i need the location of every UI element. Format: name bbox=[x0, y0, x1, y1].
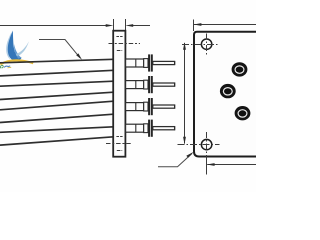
hidden hole edge dashes bottom bbox=[116, 136, 122, 138]
logo text bbox=[0, 65, 11, 68]
leader to plate corner bbox=[158, 154, 192, 167]
mounting hole top bbox=[182, 34, 219, 56]
arrowhead left at flange right face bbox=[125, 24, 133, 27]
extension line B bbox=[125, 19, 127, 31]
tube 2 bottom edge bbox=[0, 92, 114, 99]
front plate top dimension bbox=[194, 24, 256, 26]
logo flame bbox=[0, 31, 33, 65]
tube 1 bottom edge bbox=[0, 70, 114, 76]
terminal nut 3 on plate bbox=[235, 106, 251, 120]
tube 3 top edge bbox=[0, 101, 114, 110]
centerline top mounting hole bbox=[109, 43, 141, 45]
terminal nut 2 on plate bbox=[220, 84, 236, 98]
terminal nut 1 on plate bbox=[232, 62, 248, 76]
terminal 3 bbox=[126, 98, 175, 115]
terminal 2 bbox=[126, 76, 175, 93]
extension line plate top left bbox=[193, 20, 195, 32]
wire top dimension line left view bbox=[0, 25, 150, 27]
vertical dimension line between views bbox=[184, 43, 186, 144]
extension of bottom hole centerline down bbox=[206, 160, 208, 175]
hidden hole edge dashes top bbox=[116, 36, 122, 38]
tube 4 top edge bbox=[0, 127, 114, 133]
centerline bottom mounting hole bbox=[106, 143, 131, 145]
leader arrow to top tube bbox=[39, 40, 80, 58]
extension line A bbox=[113, 19, 115, 31]
terminal 1 bbox=[126, 54, 175, 71]
arrowhead right at flange left face bbox=[106, 24, 114, 27]
bottom dimension line front view bbox=[207, 164, 256, 166]
tube 1 top edge bbox=[0, 59, 114, 63]
mounting hole bottom bbox=[178, 132, 220, 160]
tube 2 top edge bbox=[0, 81, 114, 86]
tube 4 bottom edge bbox=[0, 137, 114, 145]
flange side view bbox=[113, 31, 125, 157]
terminal 4 bbox=[126, 120, 175, 137]
tube 3 bottom edge bbox=[0, 114, 114, 122]
front plate bbox=[194, 32, 258, 157]
